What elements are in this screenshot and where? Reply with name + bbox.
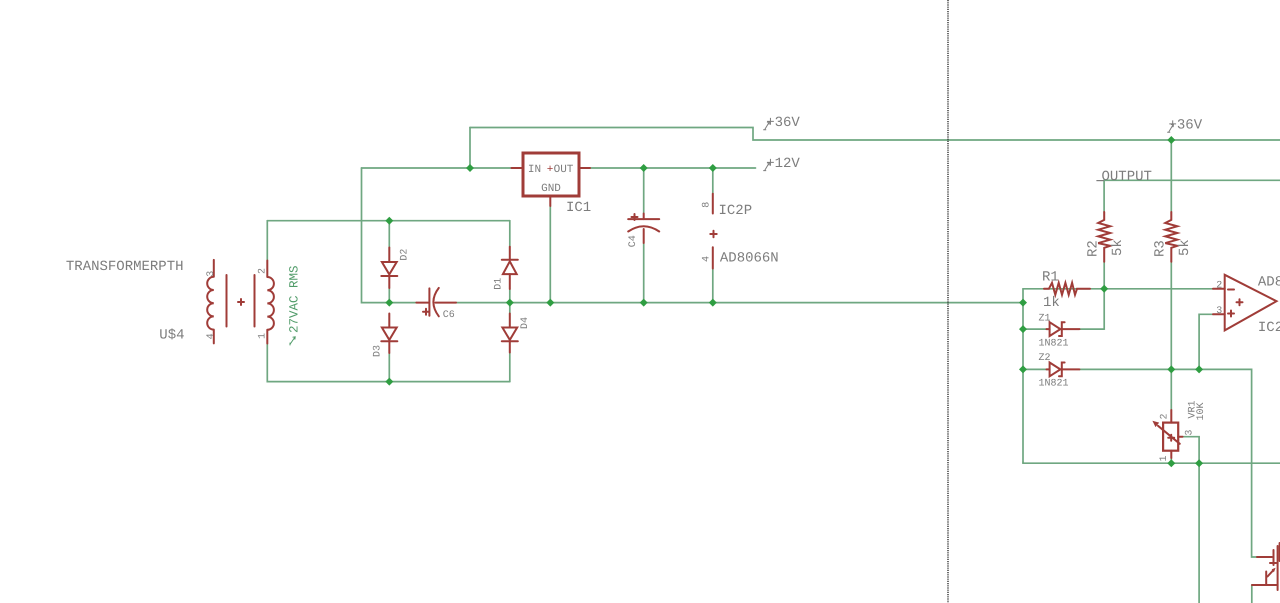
- diode D3: [381, 314, 397, 354]
- wire D4 upper lead: [509, 303, 511, 314]
- svg-text:1: 1: [1159, 455, 1170, 461]
- node mid rail / C4: [640, 299, 648, 307]
- wire MOSFET source drop: [1251, 585, 1253, 603]
- node R1/R2/Z1 summing: [1100, 285, 1108, 293]
- transformer U$4 core bars: [227, 275, 255, 327]
- svg-text:U$4: U$4: [159, 328, 184, 344]
- node R3/VR1 pin2: [1167, 365, 1175, 373]
- wire C4 top lead: [643, 168, 645, 214]
- node mid rail / IC1 GND: [546, 299, 554, 307]
- wire net +36V raw: riser from IN node: [469, 128, 471, 169]
- wire net IN: vertical drop to bridge mid: [362, 168, 417, 303]
- diode D4: [502, 314, 518, 353]
- wire R1 to op-amp pin2 line: [1023, 288, 1213, 290]
- wire Z1 cathode riser: [1103, 289, 1105, 329]
- wire R2 bottom lead: [1103, 262, 1105, 289]
- wire left riser at R1 column: [1022, 289, 1024, 462]
- svg-text:8: 8: [702, 202, 713, 208]
- svg-text:4: 4: [206, 333, 217, 339]
- wire net IN: horizontal to IC1 input: [362, 167, 514, 169]
- wire mid rail C6 to R1 column: [456, 302, 1023, 304]
- svg-text:AD8066N: AD8066N: [1258, 275, 1280, 291]
- net flag arrow +36V left: [763, 122, 769, 130]
- node +12V / IC2P pin8: [709, 164, 717, 172]
- wire transformer pin1 drop: [267, 344, 510, 382]
- svg-text:IC2P: IC2P: [719, 203, 753, 219]
- wire net +36V: upper horizontal run: [470, 128, 1280, 141]
- svg-text:+12V: +12V: [766, 156, 800, 172]
- svg-text:1k: 1k: [1043, 295, 1060, 311]
- svg-text:+36V: +36V: [766, 115, 800, 131]
- potentiometer VR1: [1152, 410, 1182, 458]
- capacitor C4: [628, 214, 659, 244]
- wire D1 lower lead: [509, 289, 511, 303]
- svg-text:10K: 10K: [1196, 402, 1207, 420]
- MOSFET Q (partially visible): [1252, 543, 1280, 590]
- resistor R1: [1044, 283, 1090, 295]
- svg-text:C4: C4: [628, 235, 639, 247]
- node mid rail / IC2P pin4: [709, 299, 717, 307]
- svg-text:IC1: IC1: [566, 200, 591, 216]
- svg-text:OUTPUT: OUTPUT: [1102, 169, 1152, 185]
- node mid rail / left riser: [1019, 299, 1027, 307]
- node bridge bottom / D3: [385, 378, 393, 386]
- wire D3 lower lead to bottom rail: [388, 353, 390, 382]
- transformer U$4 polarity plus: [238, 299, 244, 305]
- wire drop below bottom rail: [1198, 463, 1200, 603]
- svg-text:OUT: OUT: [554, 164, 574, 176]
- svg-text:IN: IN: [528, 164, 541, 176]
- net flag arrow 27VAC RMS: [290, 337, 295, 346]
- wire Z2 anode stub: [1023, 368, 1047, 370]
- transformer U$4 secondary coil: [267, 261, 274, 344]
- wire IC2P pin8 lead: [712, 168, 714, 194]
- wire D2 lower lead to mid node: [388, 288, 390, 303]
- wire transformer pin2 riser: [266, 221, 268, 261]
- wire VR1 pin3 run: [1183, 437, 1200, 464]
- svg-text:D2: D2: [400, 249, 411, 261]
- svg-text:5k: 5k: [1177, 239, 1193, 256]
- wire Z1 cathode run: [1079, 328, 1104, 330]
- svg-text:TRANSFORMERPTH: TRANSFORMERPTH: [66, 259, 184, 275]
- node Z1 anode: [1019, 325, 1027, 333]
- wire OUTPUT net: [1104, 180, 1280, 212]
- svg-text:D1: D1: [494, 278, 505, 290]
- svg-text:3: 3: [206, 271, 217, 277]
- svg-text:5k: 5k: [1110, 239, 1126, 256]
- svg-text:R3: R3: [1153, 240, 1169, 257]
- svg-text:1: 1: [258, 333, 269, 339]
- svg-text:4: 4: [702, 256, 713, 262]
- svg-text:C6: C6: [443, 310, 455, 321]
- op-amp IC2: [1213, 275, 1277, 331]
- wire IC2P pin4 lead: [712, 269, 714, 303]
- node bottom rail / VR1 pin1: [1167, 459, 1175, 467]
- node mid rail / D2 D3: [385, 299, 393, 307]
- wire bottom rail lower right: [1023, 462, 1280, 463]
- zener diode Z1: [1047, 322, 1080, 336]
- diode D2: [381, 248, 397, 289]
- svg-text:+: +: [547, 164, 554, 176]
- wire op-amp pin3 riser: [1199, 314, 1213, 369]
- svg-text:GND: GND: [541, 183, 561, 195]
- node +12V / C4: [640, 164, 648, 172]
- svg-text:3: 3: [1216, 306, 1222, 317]
- wire Z1 anode stub: [1023, 328, 1047, 330]
- node Z2 / op-amp pin3 riser: [1195, 365, 1203, 373]
- svg-text:27VAC RMS: 27VAC RMS: [288, 265, 302, 333]
- svg-text:R1: R1: [1042, 270, 1059, 286]
- node mid rail / D1 D4: [506, 299, 514, 307]
- wire D1 upper lead: [509, 221, 511, 247]
- wire VR1 pin1 drop: [1170, 458, 1172, 463]
- frame separator dotted line: [947, 0, 949, 603]
- svg-text:2: 2: [1160, 413, 1171, 419]
- svg-text:2: 2: [258, 268, 269, 274]
- node IN/+36V junction: [466, 164, 474, 172]
- transformer U$4 primary coil: [207, 260, 214, 344]
- svg-text:IC2A: IC2A: [1258, 320, 1280, 336]
- op-amp power pins IC2P: [710, 194, 716, 269]
- svg-text:Z1: Z1: [1039, 314, 1051, 325]
- resistor R2: [1098, 212, 1110, 262]
- svg-text:3: 3: [1184, 430, 1195, 436]
- svg-text:1N821: 1N821: [1039, 379, 1069, 390]
- node +36V / R3: [1167, 136, 1175, 144]
- node bridge top / D2: [385, 217, 393, 225]
- svg-text:AD8066N: AD8066N: [720, 251, 779, 267]
- zener diode Z2: [1047, 363, 1080, 377]
- wire net Z2 run to MOSFET gate: [1079, 369, 1259, 557]
- svg-text:D3: D3: [373, 345, 384, 357]
- svg-text:R2: R2: [1086, 240, 1102, 257]
- svg-text:1N821: 1N821: [1039, 339, 1069, 350]
- net flag arrow +36V right: [1167, 124, 1173, 132]
- net flag arrow +12V: [763, 163, 769, 171]
- node bottom rail / VR1 pin3: [1195, 459, 1203, 467]
- resistor R3: [1165, 212, 1177, 262]
- wire VR1 pin2 riser: [1170, 369, 1172, 410]
- capacitor C6: [416, 288, 456, 316]
- diode D1: [502, 247, 518, 289]
- svg-text:D4: D4: [520, 317, 531, 329]
- wire C4 bottom lead: [643, 243, 645, 303]
- wire R3 top lead from +36V: [1170, 140, 1172, 212]
- wire net +12V from IC1 OUT: [590, 167, 756, 169]
- svg-text:2: 2: [1216, 281, 1222, 292]
- net flag tick OUTPUT: [1096, 180, 1104, 182]
- voltage regulator IC1: [512, 153, 591, 206]
- wire D2 upper lead: [388, 221, 390, 248]
- wire R3 bottom run: [1170, 262, 1172, 370]
- wire bridge top AC rail: [267, 220, 510, 222]
- node Z2 anode: [1019, 365, 1027, 373]
- wire IC1 GND drop: [549, 206, 551, 303]
- svg-text:Z2: Z2: [1039, 353, 1051, 364]
- wire D4 lower lead: [509, 353, 511, 382]
